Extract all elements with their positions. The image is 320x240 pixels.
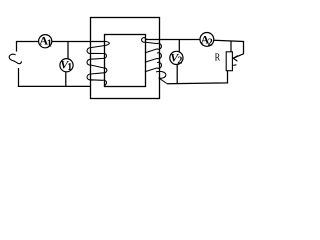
ammeter A2 — [200, 33, 214, 47]
svg-text:1: 1 — [47, 38, 52, 49]
transformer iron core — [105, 35, 146, 87]
rheostat arrow lower dash — [233, 64, 236, 67]
wire bottom-right with resistor bottom lead — [167, 71, 228, 84]
label A1 — [39, 34, 52, 50]
wire bottom-left horizontal to transformer — [18, 85, 91, 87]
svg-text:R: R — [215, 53, 221, 64]
primary coil exit line to box edge — [90, 79, 96, 81]
voltmeter V2 — [170, 51, 183, 64]
label A2 — [201, 32, 213, 48]
resistor R top lead — [230, 41, 232, 52]
label V1 — [60, 58, 72, 74]
wire bottom-left vertical from source — [18, 68, 20, 86]
voltmeter V1 wire stub bottom — [65, 72, 67, 87]
AC source S squiggle — [9, 54, 21, 63]
svg-text:1: 1 — [67, 62, 72, 73]
secondary coil S1 turns — [145, 42, 167, 83]
transformer enclosure box — [91, 18, 160, 99]
wire top-left from source corner to transformer — [17, 42, 105, 52]
ammeter A1 — [39, 35, 52, 48]
secondary coil S1 top hook — [142, 38, 147, 43]
voltmeter V2 wire stub top — [178, 40, 180, 53]
voltmeter V2 wire stub bottom — [176, 64, 178, 83]
svg-text:2: 2 — [177, 55, 182, 66]
label R — [215, 53, 221, 64]
voltmeter V1 — [60, 59, 73, 72]
voltmeter V1 wire stub top — [67, 42, 69, 59]
rheostat arrow shaft — [233, 54, 243, 58]
wire secondary top to A2 — [146, 39, 201, 41]
primary coil P1 — [87, 41, 109, 86]
resistor R body — [226, 52, 232, 71]
label V2 — [170, 50, 182, 66]
rheostat arrow head — [233, 56, 238, 62]
wire A2 to right corner — [214, 40, 244, 54]
svg-text:2: 2 — [208, 38, 213, 49]
